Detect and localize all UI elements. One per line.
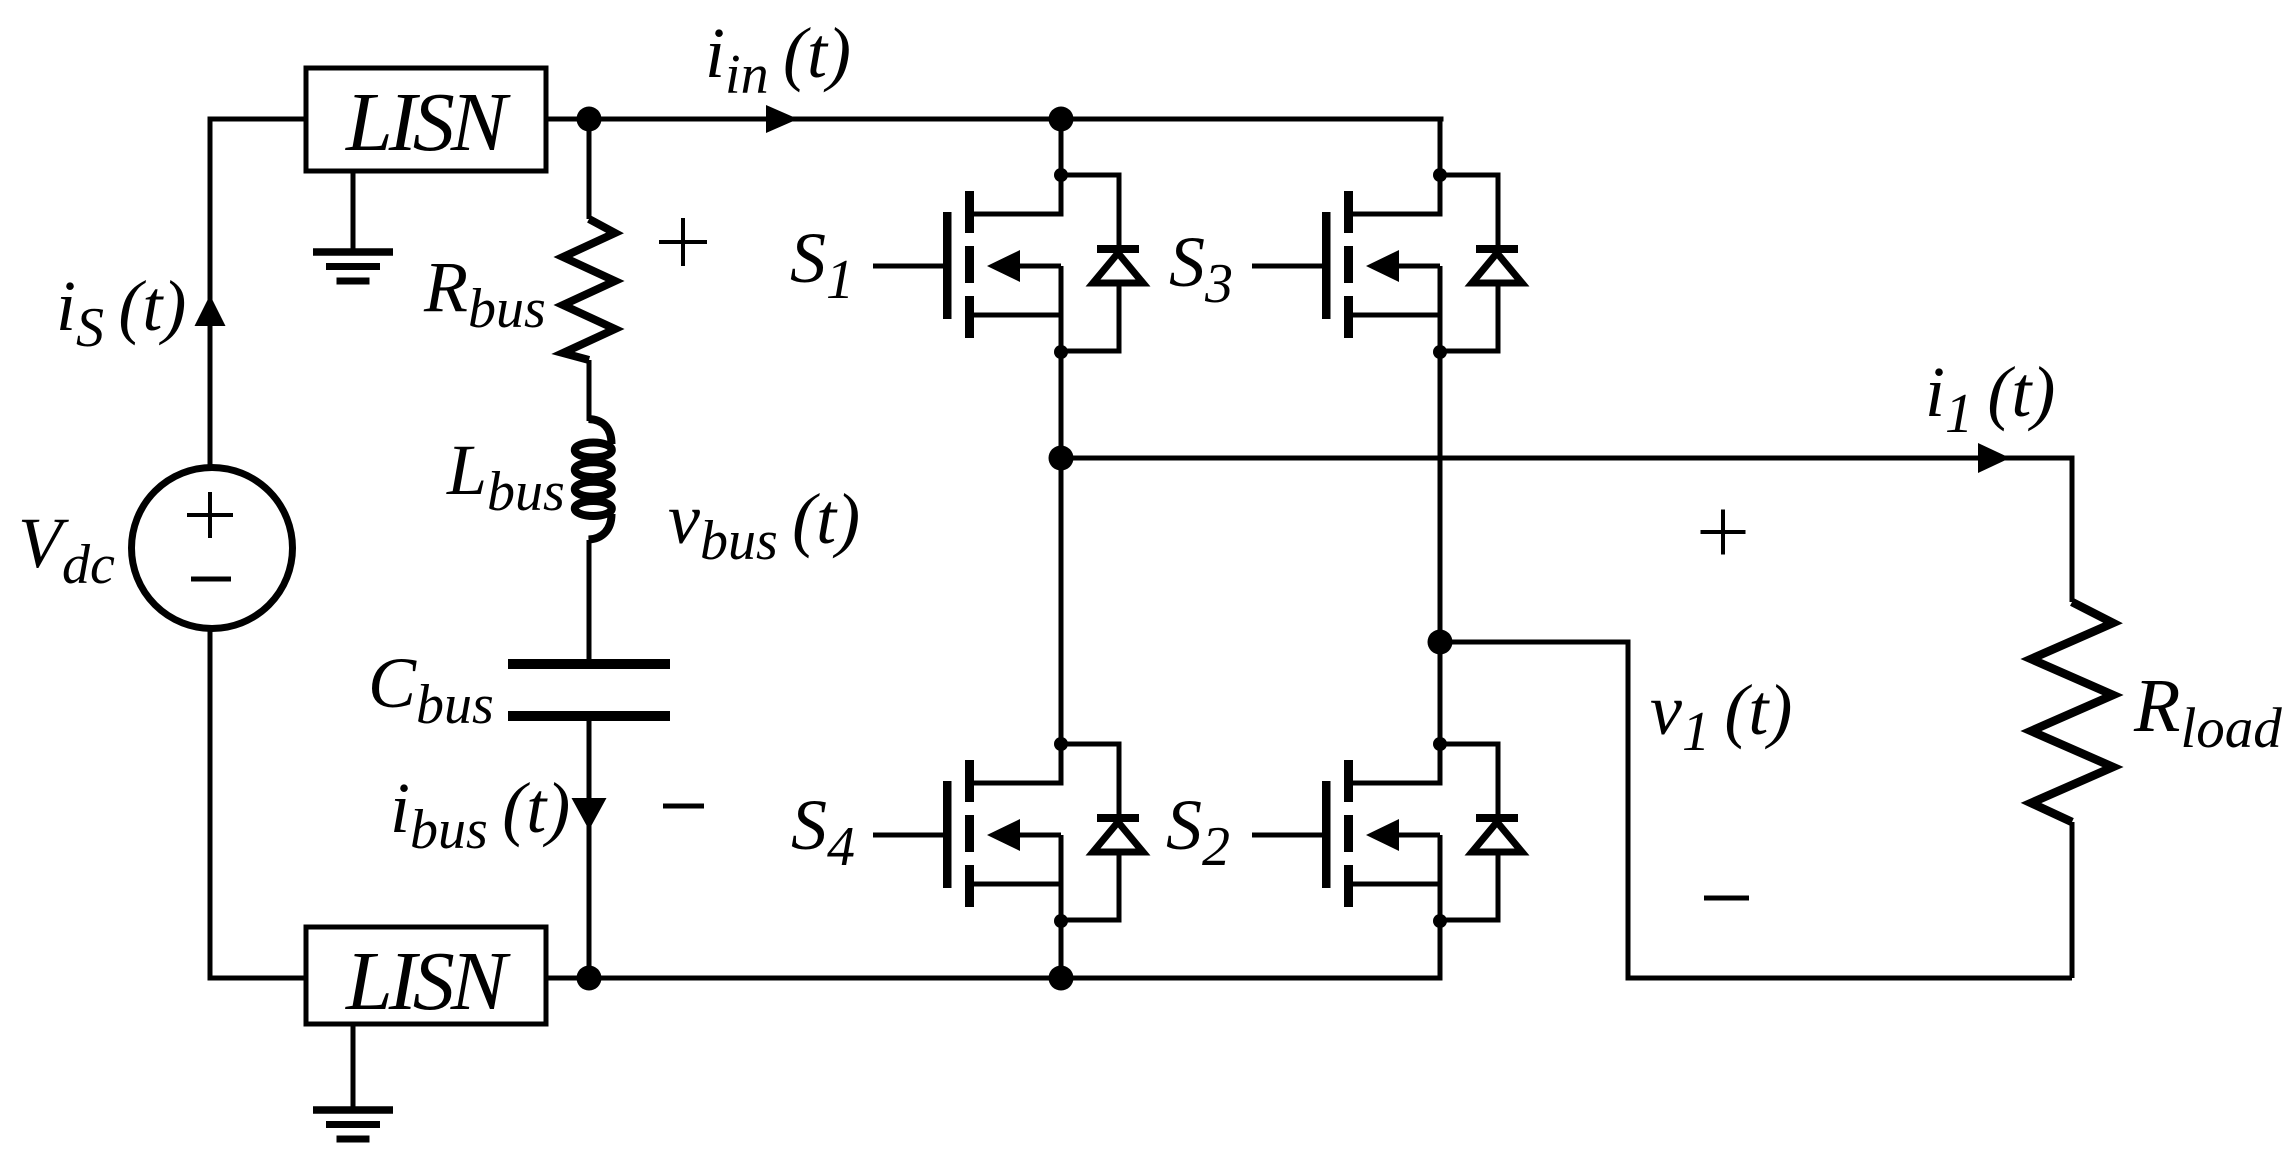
transistor S4 body arrow — [987, 819, 1020, 851]
wire top rail node A to bridge — [546, 119, 1444, 175]
transistor S2 source node dot — [1433, 914, 1447, 928]
wire S1 drain lead — [970, 175, 1062, 214]
junction dot mid-right node (output phase b) — [1428, 630, 1453, 655]
junction dot bottom rail / left leg — [1049, 966, 1074, 991]
transistor S1 drain node dot — [1054, 168, 1068, 182]
wire R_bus to L_bus — [587, 360, 592, 421]
polarity + v_1 top — [1701, 510, 1746, 555]
arrow i_in direction — [766, 105, 798, 133]
wire S2 gate lead — [1252, 833, 1322, 838]
junction dot mid-left node (output phase a) — [1049, 446, 1074, 471]
polarity - v_bus bottom — [663, 804, 704, 809]
wire S1 gate lead — [873, 264, 943, 269]
diode D1 body diode of S1 — [1061, 175, 1119, 351]
svg-text:LISN: LISN — [345, 935, 511, 1028]
wire S3 source to mid-right node — [1438, 352, 1443, 642]
diode D2 body diode of S2 — [1440, 744, 1498, 920]
wire bus: node A down to R_bus — [587, 119, 592, 219]
svg-text:iS (t): iS (t) — [56, 266, 186, 359]
wire S4 drain lead — [970, 744, 1062, 783]
transistor S2 body arrow — [1366, 819, 1399, 851]
wire S4 gate lead — [873, 833, 943, 838]
capacitor C_bus — [508, 659, 670, 669]
transistor S3 channel segments — [1344, 191, 1353, 233]
arrow i_S direction — [195, 295, 226, 326]
transistor S3 body arrow — [1366, 250, 1399, 282]
transistor S4 drain node dot — [1054, 737, 1068, 751]
wire mid-right node to S2 drain — [1438, 642, 1443, 744]
transistor S2 drain node dot — [1433, 737, 1447, 751]
junction dot node B (bus bottom) — [577, 966, 602, 991]
wire mid-left node to S4 drain — [1059, 458, 1064, 744]
transistor S4 channel segments — [965, 760, 974, 802]
wire left leg top (rail to S1 drain) — [1059, 119, 1064, 175]
transistor S3 gate bar — [1322, 212, 1331, 319]
transistor S4 gate bar — [943, 781, 952, 888]
wire from Vdc+ up and to top LISN input — [210, 119, 306, 465]
ground bottom LISN ground — [351, 1024, 356, 1110]
resistor R_load — [2031, 602, 2113, 822]
diode D4 body diode of S4 — [1061, 744, 1119, 920]
wire C_bus down to bottom rail, node B — [587, 721, 592, 978]
wire S1 source lead — [970, 266, 1062, 352]
transistor S1 source node dot — [1054, 345, 1068, 359]
block LISN top box — [306, 68, 546, 171]
svg-text:v1 (t): v1 (t) — [1650, 670, 1792, 763]
wire S3 drain lead — [1349, 175, 1441, 214]
transistor S1 gate bar — [943, 212, 952, 319]
junction dot node A (bus top) — [577, 107, 602, 132]
wire S4 source lead — [970, 835, 1062, 921]
wire S2 drain lead — [1349, 744, 1441, 783]
polarity - v_1 bottom — [1704, 896, 1749, 901]
polarity + v_bus top — [659, 218, 707, 266]
inductor L_bus — [589, 419, 612, 444]
wire bottom rail from LISN to S2 leg — [546, 919, 1440, 978]
transistor S2 gate bar — [1322, 781, 1331, 888]
polarity - inside Vdc — [191, 577, 231, 582]
source V1 Vdc circle — [132, 468, 293, 629]
transistor S3 source node dot — [1433, 345, 1447, 359]
wire S4 source to bottom rail — [1059, 919, 1064, 978]
polarity + inside Vdc — [187, 492, 233, 538]
arrow i_bus direction — [572, 798, 607, 830]
junction dot top rail / left leg — [1049, 107, 1074, 132]
wire S3 gate lead — [1252, 264, 1322, 269]
wire v_1 return: mid-right node to R_load bottom — [1440, 642, 2072, 978]
transistor S1 body arrow — [987, 250, 1020, 282]
diode D3 body diode of S3 — [1440, 175, 1498, 351]
resistor R_bus — [563, 219, 615, 360]
transistor S1 channel segments — [965, 191, 974, 233]
transistor S2 channel segments — [1344, 760, 1353, 802]
arrow i_1 direction — [1978, 443, 2010, 473]
wire R_load bottom lead — [2070, 822, 2075, 978]
wire L_bus to C_bus — [587, 540, 592, 659]
transistor S3 drain node dot — [1433, 168, 1447, 182]
block LISN bottom box — [306, 927, 546, 1024]
svg-text:LISN: LISN — [345, 76, 511, 169]
svg-text:i1 (t): i1 (t) — [1925, 352, 2055, 445]
wire S1 source to mid-left node — [1059, 352, 1064, 458]
ground top LISN ground — [351, 171, 356, 252]
wire i_1 output to R_load top — [1061, 458, 2072, 602]
transistor S4 source node dot — [1054, 914, 1068, 928]
wire from Vdc- down and to bottom LISN input — [210, 632, 306, 979]
wire S3 source lead — [1349, 266, 1441, 352]
wire S2 source lead — [1349, 835, 1441, 921]
